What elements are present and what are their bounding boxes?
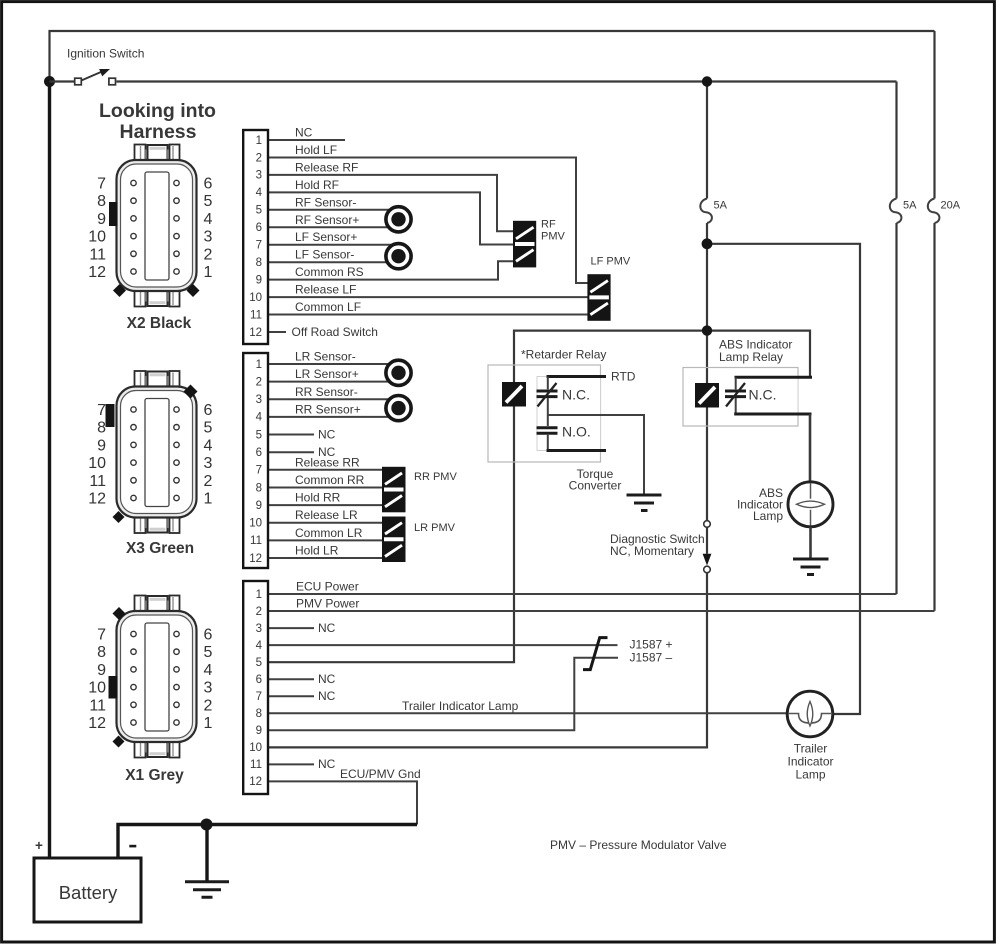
labels X2 wires [292, 126, 378, 339]
svg-text:5A: 5A [903, 200, 917, 212]
svg-text:5A: 5A [714, 200, 728, 212]
junction dot battery ground node [201, 819, 213, 831]
sensor LF (bullseye) [386, 244, 411, 269]
svg-text:5: 5 [256, 657, 262, 669]
svg-text:4: 4 [256, 412, 263, 424]
labels X1 wires [296, 580, 519, 781]
wire X2 pin12 Off Road Switch [268, 331, 286, 333]
label battery minus [129, 845, 136, 848]
svg-text:Lamp: Lamp [753, 509, 783, 523]
relay K2 contact box [736, 377, 798, 414]
svg-text:*Retarder Relay: *Retarder Relay [521, 348, 606, 362]
svg-text:6: 6 [256, 222, 262, 234]
connector X1 Grey [88, 596, 212, 758]
relay K2 NC contact [725, 377, 812, 414]
svg-text:9: 9 [256, 500, 262, 512]
connector X3 Green [88, 371, 212, 533]
sensor RF (bullseye) [386, 207, 411, 232]
svg-text:20A: 20A [941, 200, 961, 212]
wire ABS lamp to ground [809, 527, 812, 558]
svg-text:Hold RR: Hold RR [295, 491, 341, 505]
terminal strip X2 [243, 130, 268, 344]
svg-text:PMV Power: PMV Power [296, 597, 359, 611]
svg-text:3: 3 [256, 623, 262, 635]
wire X2 pin11 Common LF to LF PMV [268, 314, 588, 316]
wire PMV power pin2 to 20A [268, 610, 935, 612]
svg-text:NC, Momentary: NC, Momentary [610, 544, 694, 558]
wire X1 pin11 NC [268, 763, 314, 765]
wire X2 pin5 RF Sensor- [268, 209, 398, 211]
svg-text:Release RF: Release RF [295, 160, 358, 174]
wire J1587 minus return to pin9 [268, 658, 618, 731]
svg-text:ECU/PMV Gnd: ECU/PMV Gnd [340, 767, 421, 781]
wire X3 pin7 Release RR [268, 469, 382, 471]
sensor LR (bullseye) [386, 360, 411, 385]
svg-text:LF Sensor-: LF Sensor- [295, 248, 354, 262]
svg-text:4: 4 [256, 640, 263, 652]
pin numbers X3 strip [249, 359, 262, 565]
wire X3 pin5 NC [268, 434, 314, 436]
svg-text:NC: NC [318, 427, 336, 441]
svg-text:NC: NC [318, 757, 336, 771]
svg-text:7: 7 [256, 240, 262, 252]
svg-text:Hold LF: Hold LF [295, 143, 337, 157]
svg-text:9: 9 [256, 274, 262, 286]
wire trailer lamp feed from 5A node [707, 244, 860, 714]
wire X3 pin2 LR Sensor+ [268, 381, 398, 383]
svg-text:LF Sensor+: LF Sensor+ [295, 230, 357, 244]
wire X2 pin8 LF Sensor- [268, 261, 398, 263]
wire X1 pin3 NC [268, 627, 314, 629]
wire X3 pin4 RR Sensor+ [268, 416, 398, 418]
wire left 5A fuse vertical [706, 82, 708, 384]
ignition switch contacts [75, 78, 82, 85]
valve LR PMV [382, 517, 456, 563]
wire X2 pin9 Common RS to RF PMV [268, 261, 513, 279]
ground symbol torque converter [627, 495, 662, 511]
wire X3 pin6 NC [268, 451, 314, 453]
svg-text:Trailer Indicator Lamp: Trailer Indicator Lamp [402, 699, 519, 713]
lamp trailer indicator [787, 691, 833, 781]
fuse F3 20A [928, 199, 940, 224]
svg-text:N.C.: N.C. [749, 387, 777, 403]
wire right 5A fuse vertical [895, 82, 897, 595]
relay K1 contact box [537, 377, 601, 451]
twisted pair symbol [583, 638, 608, 670]
svg-text:Converter: Converter [569, 479, 622, 493]
svg-text:X3 Green: X3 Green [126, 540, 194, 557]
svg-text:1: 1 [256, 359, 262, 371]
ground symbol ABS lamp [793, 559, 829, 575]
junction dot ignition / left 5A branch [702, 76, 712, 86]
wire X3 pin10 Release LR [268, 522, 382, 524]
svg-text:Battery: Battery [59, 882, 118, 903]
diagnostic switch arrow [703, 554, 712, 566]
svg-text:NC: NC [318, 621, 336, 635]
lamp ABS indicator [737, 482, 833, 527]
svg-text:Ignition Switch: Ignition Switch [67, 47, 144, 61]
svg-text:2: 2 [256, 606, 262, 618]
svg-text:Trailer: Trailer [794, 742, 828, 756]
svg-text:Release LF: Release LF [295, 283, 356, 297]
labels X3 wires [295, 350, 365, 558]
svg-text:Hold LR: Hold LR [295, 544, 339, 558]
svg-text:4: 4 [256, 187, 263, 199]
wire J1587 plus [268, 644, 618, 646]
wire ABS relay to lamp [809, 414, 812, 482]
svg-text:Common LR: Common LR [295, 526, 363, 540]
svg-text:RTD: RTD [611, 370, 636, 384]
wire 20A fuse branch vertical [933, 31, 935, 611]
svg-text:+: + [35, 838, 43, 853]
svg-text:NC: NC [295, 126, 313, 140]
svg-text:6: 6 [256, 674, 262, 686]
svg-text:X2 Black: X2 Black [127, 315, 192, 332]
wire ECU power pin1 to right 5A [268, 593, 897, 595]
svg-text:3: 3 [256, 170, 262, 182]
battery B1 [34, 858, 141, 922]
svg-text:1: 1 [256, 589, 262, 601]
svg-text:Hold RF: Hold RF [295, 178, 339, 192]
svg-text:NC: NC [318, 689, 336, 703]
svg-text:Lamp: Lamp [795, 768, 825, 782]
svg-text:Release LR: Release LR [295, 508, 358, 522]
svg-text:Common RS: Common RS [295, 265, 364, 279]
svg-text:J1587 –: J1587 – [630, 651, 673, 665]
valve RR PMV [382, 467, 457, 513]
svg-text:ECU Power: ECU Power [296, 580, 359, 594]
relay K1 NO contact [537, 398, 591, 449]
svg-text:2: 2 [256, 376, 262, 388]
svg-text:Common LF: Common LF [295, 300, 361, 314]
svg-text:7: 7 [256, 465, 262, 477]
svg-text:LR Sensor-: LR Sensor- [295, 350, 356, 364]
svg-text:9: 9 [256, 725, 262, 737]
ground symbol chassis (battery) [205, 825, 208, 881]
wire battery negative bus [118, 825, 417, 859]
svg-text:Looking into: Looking into [99, 100, 216, 122]
valve LF PMV [587, 256, 630, 321]
wire X3 pin12 Hold LR [268, 557, 382, 559]
wire X1 pin6 NC [268, 678, 314, 680]
svg-text:RR Sensor-: RR Sensor- [295, 385, 358, 399]
sensor RR (bullseye) [386, 396, 411, 421]
svg-text:1: 1 [256, 135, 262, 147]
fuse F2 5A (right) [890, 199, 902, 224]
wire X2 pin6 RF Sensor+ [268, 226, 398, 228]
wire ABS relay coil to diagnostic switch [706, 407, 708, 521]
svg-text:Harness: Harness [120, 121, 197, 143]
svg-text:PMV: PMV [541, 231, 566, 243]
svg-text:Off Road Switch: Off Road Switch [292, 325, 378, 339]
svg-text:3: 3 [256, 394, 262, 406]
wire relay feed line [268, 331, 810, 663]
svg-text:6: 6 [256, 447, 262, 459]
diagnostic switch contacts [704, 521, 711, 528]
terminal strip X3 [243, 353, 268, 568]
wire battery positive rail (top) [48, 82, 51, 859]
relay K1 outline box [488, 365, 601, 462]
svg-text:2: 2 [256, 152, 262, 164]
svg-text:11: 11 [250, 759, 262, 771]
wire K1 common to ground [548, 415, 644, 494]
svg-text:8: 8 [256, 708, 262, 720]
pin numbers X1 strip [249, 589, 262, 788]
svg-text:12: 12 [249, 553, 262, 565]
relay K1 RTD terminal [547, 375, 607, 378]
wire X3 pin1 LR Sensor- [268, 363, 398, 365]
wire X2 pin2 Hold LF to LF PMV [268, 158, 588, 284]
svg-text:Common RR: Common RR [295, 473, 365, 487]
svg-text:5: 5 [256, 429, 262, 441]
wire ignition switch output to right 5A fuse [117, 80, 897, 82]
svg-text:LR Sensor+: LR Sensor+ [295, 367, 359, 381]
wire X2 pin7 LF Sensor+ [268, 244, 398, 246]
wire X1 pin7 NC [268, 695, 314, 697]
svg-text:RR Sensor+: RR Sensor+ [295, 402, 361, 416]
svg-text:RF Sensor+: RF Sensor+ [295, 213, 359, 227]
svg-text:RR PMV: RR PMV [414, 471, 457, 483]
relay K1 NC contact [537, 377, 591, 407]
svg-text:12: 12 [249, 327, 262, 339]
svg-text:N.C.: N.C. [562, 387, 590, 403]
wire X2 pin1 NC [268, 139, 345, 141]
svg-text:8: 8 [256, 257, 262, 269]
svg-text:PMV – Pressure Modulator Valve: PMV – Pressure Modulator Valve [550, 838, 727, 852]
svg-text:11: 11 [250, 535, 262, 547]
valve RF PMV [513, 219, 566, 268]
svg-text:12: 12 [249, 776, 262, 788]
wire X2 pin4 Hold RF to RF PMV [268, 192, 513, 244]
relay K2 outline box [683, 368, 798, 427]
terminal strip X1 [243, 581, 268, 794]
wire X2 pin10 Release LF to LF PMV [268, 296, 588, 298]
svg-text:Indicator: Indicator [787, 755, 833, 769]
junction dot relay feed node [702, 325, 712, 335]
svg-text:Lamp Relay: Lamp Relay [719, 350, 783, 364]
relay K1 bottom terminal (torque converter) [547, 449, 607, 452]
wire X3 pin3 RR Sensor- [268, 398, 398, 400]
svg-text:11: 11 [250, 309, 262, 321]
ignition switch lever [81, 72, 102, 81]
svg-text:RF Sensor-: RF Sensor- [295, 195, 356, 209]
svg-text:NC: NC [318, 672, 336, 686]
svg-text:10: 10 [249, 292, 262, 304]
svg-text:LF PMV: LF PMV [591, 256, 631, 268]
relay K2 coil [695, 383, 719, 408]
wire X3 pin11 Common LR [268, 539, 382, 541]
wire junction to switch contact [50, 80, 75, 82]
junction dot battery positive / ignition branch [44, 76, 55, 87]
wire X3 pin8 Common RR [268, 487, 382, 489]
svg-text:LR PMV: LR PMV [414, 522, 456, 534]
svg-text:X1 Grey: X1 Grey [125, 767, 184, 784]
svg-text:8: 8 [256, 482, 262, 494]
fuse F1 5A (left) [700, 199, 712, 224]
junction dot 5A out / trailer feed [702, 238, 713, 249]
svg-text:10: 10 [249, 518, 262, 530]
wire X2 pin3 Release RF to RF PMV [268, 175, 513, 231]
svg-text:5: 5 [256, 205, 262, 217]
svg-text:10: 10 [249, 742, 262, 754]
relay K1 coil [502, 382, 526, 407]
svg-text:Release RR: Release RR [295, 455, 360, 469]
pin numbers X2 strip [249, 135, 262, 339]
wire X3 pin9 Hold RR [268, 504, 382, 506]
connector X2 Black [88, 145, 212, 307]
svg-text:7: 7 [256, 691, 262, 703]
svg-text:RF: RF [541, 219, 556, 231]
wire ECU/PMV ground pin12 [268, 781, 417, 824]
svg-text:N.O.: N.O. [562, 424, 591, 440]
wire trailer indicator lamp pin8 [268, 712, 788, 714]
